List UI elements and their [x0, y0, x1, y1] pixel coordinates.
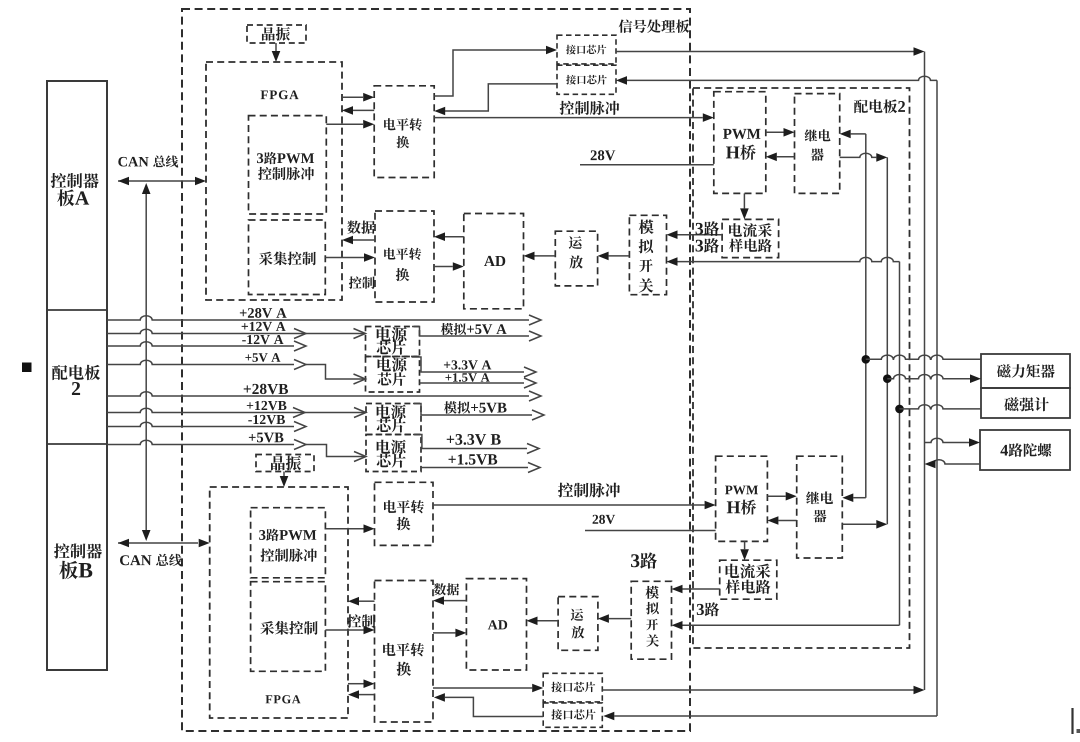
crystal oscillator U-XTAL-A 晶振 — [247, 25, 306, 43]
vertical serial RX bus x937 — [936, 80, 938, 716]
label 控制 B — [347, 614, 375, 628]
label 3路 A2 — [696, 238, 720, 253]
label 3路 A1 — [696, 221, 720, 236]
label 电源芯片1 — [377, 327, 407, 342]
label 电平转换 B-top l1 — [384, 500, 424, 513]
label 配电板2 label — [854, 99, 905, 113]
relay B 继电器 — [797, 456, 843, 558]
CAN bus A wire 双向 — [118, 180, 195, 182]
label 电源芯片2 — [378, 357, 407, 372]
block 3路PWM控制脉冲 A — [249, 116, 327, 214]
power chip box1 电源芯片 — [366, 327, 420, 357]
label 数据 A — [347, 221, 375, 234]
label 接口芯片 B2 — [551, 709, 595, 720]
wire 模拟+5VB output — [413, 404, 532, 416]
wire 接口芯片A1 to serial bus — [616, 51, 914, 53]
CAN bus B wire 双向 — [118, 542, 198, 544]
wire analog switch B to op-amp B — [609, 618, 631, 620]
interface chip A1 接口芯片 — [557, 35, 616, 64]
wire +5VB — [107, 440, 294, 444]
label 电平转换 A-top l1 — [384, 118, 422, 130]
wire 接口芯片A2 to 电平转换A — [445, 84, 557, 111]
vertical bus x887 (magnetorquer drive) — [886, 157, 888, 524]
block 采集控制 B — [251, 582, 326, 672]
label xtal B — [271, 456, 301, 471]
wire 控制脉冲 B to PWM H-bridge B — [433, 504, 705, 506]
wire 采集控制 A to 电平转换A-bot — [325, 257, 364, 259]
label -12V A — [242, 335, 283, 344]
wire 3-ch bus B to analog switch B — [683, 624, 900, 626]
wire ADC A to 电平转换A-bot — [445, 236, 464, 238]
label 磁强计 — [1004, 397, 1049, 411]
wire bus866 to relay A input — [851, 133, 866, 135]
wire +3.3V A output — [412, 357, 524, 372]
label 控制脉冲 A — [560, 101, 620, 115]
level shifter B-bottom 电平转换 — [375, 581, 434, 723]
vertical CAN link wire x=146 — [145, 192, 147, 532]
wire 采集控制 B to 电平转换B-bot (控制) — [325, 629, 363, 631]
label +1.5VB — [449, 454, 498, 465]
vertical bus x866 (magnetorquer return) — [865, 134, 867, 498]
ADC A — [464, 214, 524, 309]
label -12VB — [248, 415, 285, 424]
op-amp A 运放 — [555, 231, 597, 286]
label 电平转换 A-bot l1 — [384, 248, 421, 260]
wire 28V B to PWM H-bridge B — [585, 530, 716, 532]
current sampling B 电流采样电路 — [720, 560, 777, 599]
magnetometer box 磁强计 — [981, 388, 1070, 418]
label 控制脉冲 B — [558, 483, 620, 498]
label FPGA A — [261, 90, 299, 99]
PWM H-bridge B — [716, 456, 768, 541]
wire 晶振B to FPGA B — [283, 472, 285, 479]
wire FPGA B to 电平转换B-bot — [348, 683, 364, 685]
wire +28VB — [107, 392, 529, 396]
crystal oscillator U-XTAL-B 晶振 — [256, 455, 314, 472]
wire op-amp B to ADC B — [538, 620, 559, 622]
wire -12V A — [107, 342, 294, 346]
node junction dot bus887 — [883, 374, 892, 383]
label 电流采样电路 B — [726, 564, 771, 579]
label 控制器板B line1 — [54, 543, 102, 558]
label 电平转换 B-bot l1 — [383, 643, 424, 656]
label 电源芯片3 — [377, 405, 406, 420]
interface chip B2 接口芯片 — [543, 703, 602, 727]
analog switch A 模拟开关 — [629, 215, 666, 294]
label 信号处理板 — [619, 19, 690, 32]
wire +3.3V B output — [413, 435, 527, 449]
label 运放 A l1 — [569, 236, 582, 249]
level shifter A-bottom 电平转换 — [375, 211, 434, 302]
label 3路PWM B — [259, 529, 316, 541]
wire +12V A — [107, 329, 364, 333]
wire 接口芯片B2 to 电平转换B-bot — [445, 697, 543, 716]
wire +1.5V A output — [420, 382, 525, 384]
label 配电板2 line2 — [72, 382, 80, 395]
wire PWM B to current sampling B — [744, 541, 746, 549]
power chip box4 电源芯片 — [366, 435, 421, 472]
label 模拟+5VB — [444, 401, 507, 414]
label PWM A — [723, 129, 760, 139]
wire op-amp A to ADC A — [535, 255, 556, 257]
stray black square mark — [22, 363, 32, 373]
wire 3-ch bus A to analog switch A — [678, 257, 900, 261]
label 接口芯片 A1 — [566, 45, 606, 55]
wire bus899 to magnetometer — [900, 405, 982, 409]
wire relay A to PWM A — [777, 156, 795, 158]
analog switch B 模拟开关 — [631, 581, 671, 659]
magnetorquer box 磁力矩器 — [981, 354, 1070, 388]
label 运放 B l1 — [571, 609, 583, 621]
label 控制器板A line1 — [51, 173, 99, 188]
label 控制脉冲 B box — [260, 548, 316, 561]
label 电源芯片4 — [377, 440, 406, 455]
label 数据 B — [434, 583, 459, 595]
label 采集控制 A — [259, 252, 316, 266]
wire PWM A to current sampling A — [743, 193, 745, 208]
wire bus887 to magnetorquer (arrow) — [887, 375, 970, 379]
label +1.5V A — [445, 373, 489, 382]
label 4路陀螺 — [1000, 443, 1051, 457]
wire ADC B to 电平转换B-bot (数据) — [444, 600, 466, 602]
label +3.3V B — [447, 434, 501, 445]
FPGA B outer dashed box — [210, 487, 348, 718]
label 控制器板A line2 — [57, 189, 89, 206]
label 28V A — [591, 150, 616, 160]
label 3路PWM A — [257, 152, 314, 164]
wire 电平转换A-bot to FPGA A (数据) — [353, 239, 375, 241]
vertical bus x899 (magnetometer 3ch) — [899, 262, 901, 626]
wire +12VB — [107, 408, 365, 412]
wire -12VB — [107, 422, 294, 426]
wire 电平转换B-bot to 接口芯片B1 — [433, 687, 532, 689]
label 电流采样电路 A — [729, 223, 772, 237]
label FPGA B — [266, 695, 301, 703]
label +12VB — [247, 401, 287, 410]
block 3路PWM控制脉冲 B — [251, 508, 326, 578]
wire gyro output to serial bus — [933, 460, 980, 464]
wire 电平转换B-bot to FPGA B lower — [359, 694, 375, 696]
label +12V A — [242, 322, 286, 331]
label PWM B — [725, 486, 758, 495]
ADC B — [466, 579, 526, 670]
wire 控制脉冲 A to PWM H-bridge A — [434, 117, 703, 119]
label AD A — [484, 256, 505, 266]
FPGA A outer dashed box — [206, 62, 342, 300]
wire 晶振A to FPGA A — [275, 43, 277, 53]
wire current sampling A to analog switch A — [678, 234, 723, 236]
wire 接口芯片B1 to serial bus — [602, 689, 913, 691]
interface chip A2 接口芯片 — [557, 65, 616, 94]
wire 电平转换B-bot to FPGA B — [359, 600, 375, 602]
wire relay A output to bus887 — [840, 153, 877, 157]
wire 模拟+5V A output — [412, 327, 529, 337]
label AD B — [488, 620, 507, 629]
wire relay B output to bus887 — [842, 523, 876, 525]
wire 电平转换A-bot to ADC A (控制) — [434, 266, 453, 268]
label xtal A — [262, 27, 290, 41]
block 采集控制 A — [249, 220, 326, 295]
label 28V B — [593, 515, 616, 524]
label CAN bus A — [118, 155, 178, 167]
wire +1.5VB output — [421, 467, 528, 469]
level shifter B-top 电平转换 — [375, 482, 434, 545]
label 控制 A — [349, 276, 375, 288]
label 继电器 B — [806, 491, 833, 504]
label 磁力矩器 — [997, 364, 1055, 378]
label 控制器板B line2 — [59, 561, 92, 579]
controller board stack (控制器板A/配电板2/控制器板B) — [47, 81, 107, 670]
wire analog switch A to op-amp A — [609, 255, 630, 257]
label 接口芯片 A2 — [566, 75, 607, 85]
wire 电平转换A to FPGA A — [353, 109, 374, 111]
label 模拟开关 B — [645, 586, 658, 599]
wire relay B to PWM B — [778, 520, 796, 522]
gyro box 4路陀螺 — [980, 430, 1070, 470]
wire PWM B to relay B — [767, 495, 785, 497]
label 配电板2 line1 — [52, 365, 100, 380]
label 采集控制 B — [260, 621, 317, 635]
wire FPGA A to 电平转换A — [342, 96, 363, 98]
power distribution board dashed border 配电板2 — [693, 88, 910, 648]
label 3路 B1 — [631, 552, 657, 568]
label 模拟开关 A — [639, 220, 654, 234]
wire 电平转换B-bot to ADC B — [433, 632, 455, 634]
wire current sampling B to analog switch B — [683, 588, 720, 590]
wire 3路PWM B to 电平转换B-top — [325, 528, 363, 530]
label +28VB — [244, 384, 288, 394]
wire +5V A — [107, 360, 294, 364]
label +5VB — [249, 433, 284, 443]
wire serial bus to gyro input — [925, 438, 970, 442]
node junction dot bus899 — [895, 405, 904, 414]
vertical serial TX bus x924.5 — [924, 52, 926, 691]
label CAN bus B — [120, 554, 182, 567]
level shifter A-top 电平转换 — [374, 86, 434, 178]
label 接口芯片 B1 — [551, 682, 595, 692]
label +28V A — [240, 308, 287, 318]
wire serial bus to 接口芯片B2 — [614, 715, 937, 717]
interface chip B1 接口芯片 — [543, 673, 602, 702]
wire 28V A to PWM H-bridge A — [580, 164, 714, 166]
wire +28V A — [107, 316, 529, 320]
stray mark bottom right — [1071, 708, 1073, 734]
current sampling A 电流采样电路 — [722, 219, 779, 257]
PWM H-bridge A — [714, 92, 766, 194]
label 控制脉冲 A box — [258, 167, 314, 180]
op-amp B 运放 — [558, 597, 598, 651]
power chip box2 电源芯片 — [366, 357, 420, 393]
wire 3路PWM A to 电平转换A — [326, 123, 363, 125]
wire bus866 to relay B input — [853, 497, 866, 499]
wire bus866 to magnetorquer — [866, 355, 981, 359]
label +5V A — [245, 353, 280, 362]
signal-processing-board outer dashed border 信号处理板 — [182, 9, 690, 731]
label +3.3V A — [444, 360, 491, 369]
power chip box3 电源芯片 — [366, 404, 421, 435]
wire PWM A to relay A — [766, 131, 784, 133]
wire 电平转换A to 接口芯片A1 — [434, 50, 546, 96]
label 继电器 A — [805, 129, 831, 141]
label 3路 B2 — [697, 602, 719, 616]
label 模拟+5V A — [441, 323, 507, 335]
node junction dot bus866 — [862, 355, 871, 364]
relay A 继电器 — [795, 94, 840, 194]
wire serial bus to 接口芯片A2 — [627, 76, 937, 80]
